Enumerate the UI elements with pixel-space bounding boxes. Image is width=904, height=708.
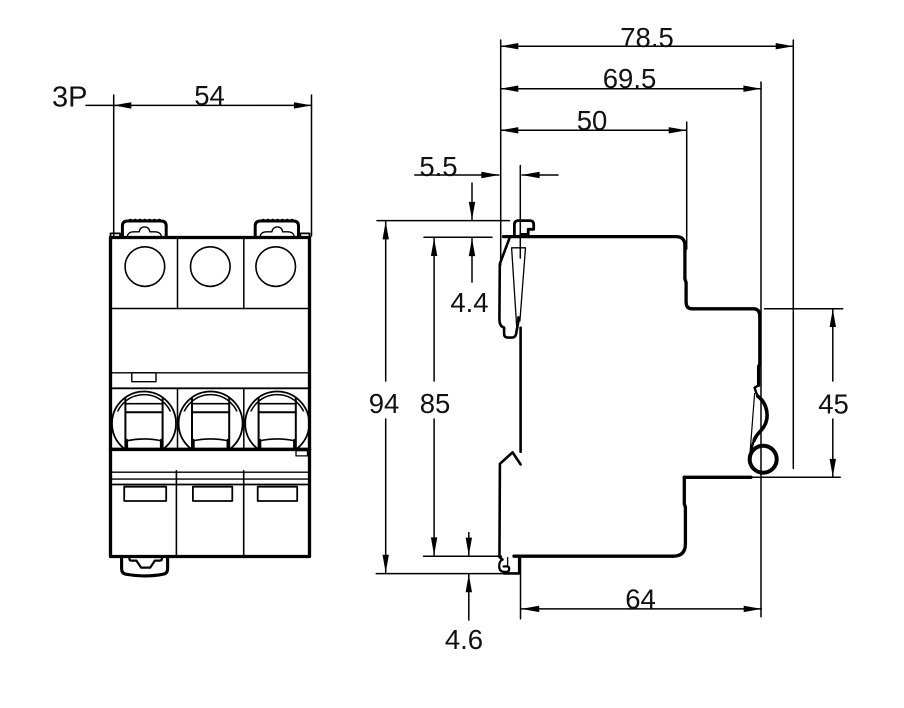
dim 54 extension left (113, 95, 115, 237)
front face S-bulge (754, 396, 767, 440)
dim 4.6 upper arrow (468, 533, 470, 556)
terminal screw circle pole 3 (256, 247, 296, 287)
svg-text:78.5: 78.5 (620, 22, 674, 53)
side view right edge with seam (685, 246, 692, 309)
svg-text:85: 85 (420, 388, 451, 419)
svg-text:5.5: 5.5 (419, 151, 457, 182)
lower clip bottom and right (504, 556, 519, 573)
terminal screw circle pole 1 (125, 247, 165, 287)
svg-text:3P: 3P (52, 82, 87, 114)
svg-text:94: 94 (369, 388, 400, 419)
top tab pole 1 knurl texture (128, 219, 162, 220)
dim 54 line (114, 104, 312, 106)
extension line y220 shared (94 top / 4.4) (377, 220, 510, 222)
label rect pole 1 (124, 487, 166, 501)
top tab pole 3 inner groove arc (260, 227, 294, 236)
top tab (thumb grip) pole 3 (255, 221, 298, 237)
extension line 69.5 right (760, 82, 762, 617)
svg-text:64: 64 (625, 584, 656, 615)
small label window (132, 373, 156, 382)
upper DIN clip outer (499, 238, 518, 337)
lower face line 3 (111, 484, 310, 486)
top-left corner rim step (111, 233, 121, 237)
extension line 5.5 right (519, 166, 521, 259)
small notch rect right of band (296, 451, 308, 456)
terminal screw circle pole 2 (191, 247, 231, 287)
lower clip hook curl (499, 560, 509, 572)
dim 4.4 lower arrow (471, 239, 473, 283)
side view left (rear) edge (519, 328, 522, 452)
dim 69.5 line (501, 88, 761, 90)
dim 94 upper segment (385, 222, 387, 381)
extension line 50 right (686, 122, 688, 249)
bottom DIN clip front view (122, 557, 168, 576)
face upper line (111, 372, 310, 374)
svg-text:54: 54 (194, 80, 225, 111)
toggle handle pole 3 (259, 399, 296, 448)
dim 45 upper segment (832, 309, 834, 381)
dim 50 line (501, 129, 687, 131)
dim 85 upper segment (433, 238, 435, 381)
extension line y237 (85 top / 4.4) (424, 236, 492, 238)
lower DIN clip peak and left edge (500, 452, 521, 559)
dim 5.5 right segment (522, 174, 558, 176)
lower face line 1 (111, 471, 310, 473)
dim 94 lower segment (385, 419, 387, 572)
lower divider right (243, 471, 245, 557)
top-right corner rim step (300, 233, 309, 237)
terminal section divider left (177, 238, 179, 309)
extension line y573.6 (94 / 4.6 bottom) (376, 573, 504, 575)
dim 85 lower segment (433, 419, 435, 555)
terminal section bottom line (111, 308, 310, 310)
extension line 78.5 right (792, 40, 794, 468)
front face notch (755, 385, 759, 396)
side view top edge (504, 237, 685, 246)
bottom clip knurled edge (126, 575, 163, 577)
toggle handle pole 1 (125, 399, 162, 448)
dim 4.4 upper arrow (471, 183, 473, 220)
handle arch inner arcs (115, 395, 306, 453)
dim 45 lower segment (832, 419, 834, 477)
rear top tab (514, 221, 533, 237)
extension line 64 left (520, 558, 522, 619)
loop connector (752, 440, 754, 451)
svg-text:4.6: 4.6 (445, 624, 483, 655)
dim 4.6 lower arrow (468, 575, 470, 620)
handle area divider right (243, 388, 245, 449)
label rect pole 3 (258, 487, 298, 501)
handle area divider left (177, 388, 179, 449)
lower face line 2 (111, 478, 310, 480)
extension line y556 (85 bottom) (424, 555, 502, 557)
central band thick line (111, 448, 310, 452)
step line under terminal (684, 476, 751, 479)
top tab pole 1 inner groove arc (128, 227, 162, 236)
lower clip inner line (507, 558, 509, 566)
front view body outline (111, 238, 310, 557)
side view bottom edge (514, 555, 673, 558)
dim 5.5 left segment (415, 174, 499, 176)
dim 54 extension right (311, 95, 313, 236)
face second line (111, 387, 310, 389)
toggle handle pole 2 (192, 399, 229, 448)
top tab (thumb grip) pole 1 (122, 221, 166, 237)
lower divider left (175, 471, 177, 557)
dim 64 line (522, 608, 762, 610)
top tab pole 3 knurl texture (261, 219, 295, 220)
label rect pole 2 (193, 487, 232, 501)
svg-text:50: 50 (577, 105, 608, 136)
upper clip inner slot (512, 248, 526, 330)
svg-text:45: 45 (818, 389, 849, 420)
terminal section divider right (243, 238, 245, 309)
inner step vertical (673, 477, 685, 556)
thin chord line (750, 394, 755, 459)
dim 54 leader from 3P (86, 104, 114, 106)
bottom clip scallop notch (129, 557, 162, 568)
handle arch big pole 1 (112, 392, 309, 456)
svg-text:69.5: 69.5 (603, 63, 657, 94)
terminal guard loop (750, 446, 777, 473)
dim 78.5 line (501, 45, 794, 47)
svg-text:4.4: 4.4 (450, 287, 488, 318)
front face upper (759, 317, 760, 386)
extension line 45 bottom (747, 476, 841, 478)
top of front protrusion (692, 309, 760, 317)
extension line 45 top (765, 308, 843, 310)
extension line left edge shared (500, 40, 502, 265)
